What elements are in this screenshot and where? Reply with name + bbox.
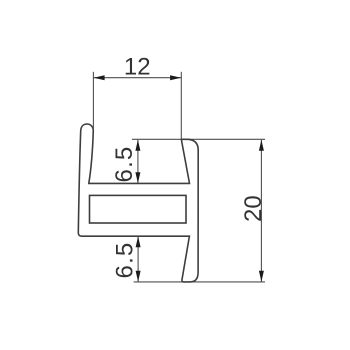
dim 20: dimension line xyxy=(260,140,262,282)
dim 6.5 lower: dimension line xyxy=(137,237,139,282)
dim 12: dimension line xyxy=(94,77,182,79)
dim 6.5 upper: dimension line xyxy=(137,140,139,183)
dim 6.5 lower: top arrow xyxy=(136,236,141,247)
hollow chamber rectangle xyxy=(90,195,187,223)
dim 20: bottom arrow xyxy=(259,271,264,282)
dim 6.5 lower: bottom arrow xyxy=(136,271,141,282)
dim 12: left arrow xyxy=(94,75,105,80)
top extension line y139 (for 6.5 and 20 dims) xyxy=(132,138,265,140)
dim 12: right extension line xyxy=(180,72,182,139)
svg-text:20: 20 xyxy=(240,195,267,222)
dim 6.5 upper: top arrow xyxy=(135,140,140,151)
dim 12: left extension line xyxy=(92,72,94,130)
bottom extension line y282 (for 6.5 and 20 dims) xyxy=(134,281,265,283)
dim 12: right arrow xyxy=(170,75,181,80)
dim 20: top arrow xyxy=(259,140,264,151)
svg-text:6.5: 6.5 xyxy=(112,242,139,279)
profile outline (seal cross-section) xyxy=(78,124,198,282)
svg-text:12: 12 xyxy=(124,54,151,81)
dim 6.5 upper: bottom arrow xyxy=(135,172,140,183)
svg-text:6.5: 6.5 xyxy=(111,146,138,183)
